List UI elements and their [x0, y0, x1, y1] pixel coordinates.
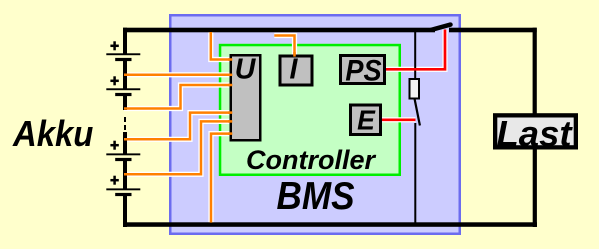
svg-text:PS: PS [345, 54, 381, 87]
svg-text:I: I [290, 54, 299, 86]
svg-text:Akku: Akku [12, 114, 93, 154]
svg-text:Last: Last [496, 113, 573, 154]
svg-text:Controller: Controller [246, 145, 377, 175]
svg-text:E: E [357, 104, 376, 136]
svg-text:U: U [235, 54, 257, 86]
svg-text:BMS: BMS [277, 173, 355, 217]
